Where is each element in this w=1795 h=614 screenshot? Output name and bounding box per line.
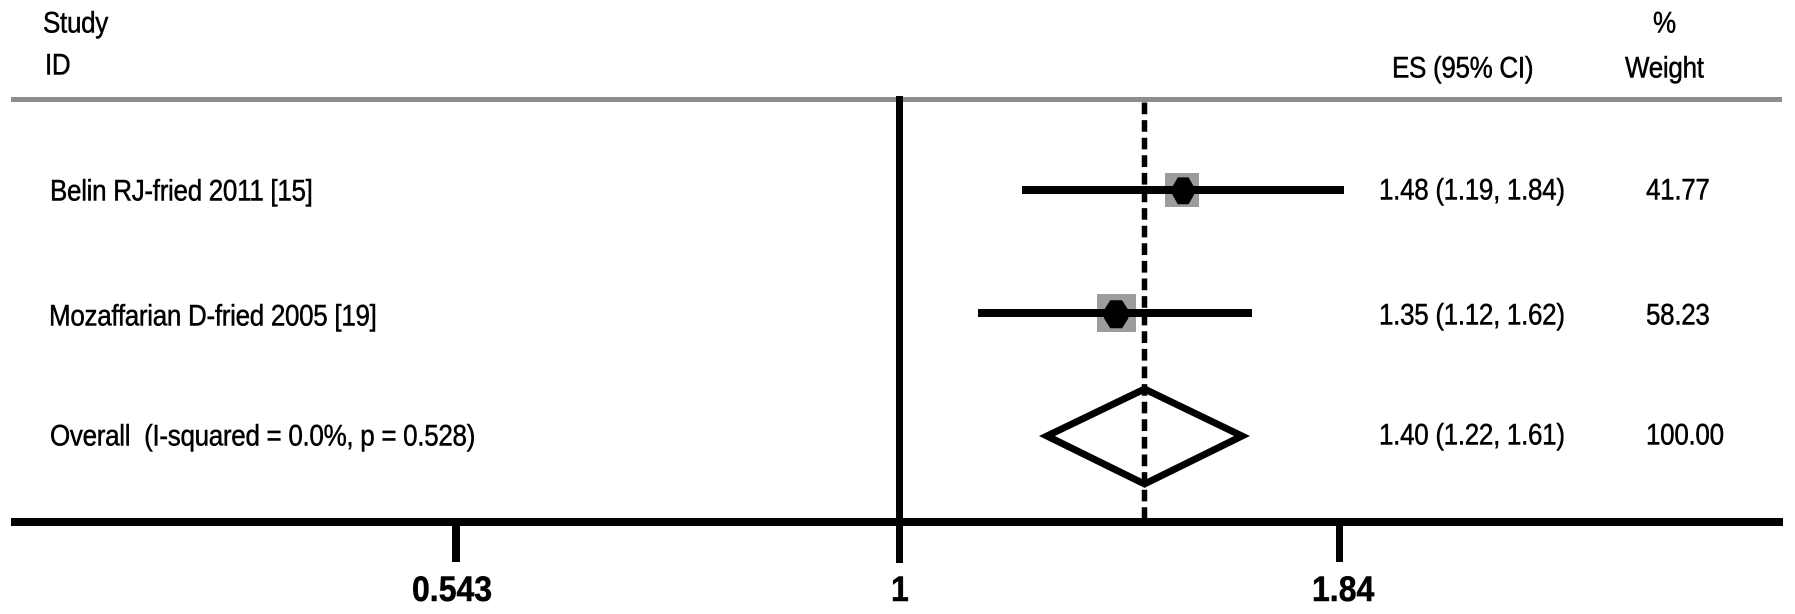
header: Study xyxy=(43,7,108,37)
header: Weight xyxy=(1625,52,1704,82)
gray separator line xyxy=(11,97,1782,102)
row 1 gray weight square xyxy=(1165,173,1199,207)
tick 1.84 xyxy=(1336,522,1343,562)
row 1 CI line xyxy=(1022,186,1344,194)
row 1 weight text xyxy=(1646,174,1710,204)
header: ID xyxy=(45,49,70,79)
row 2 black point marker xyxy=(1103,299,1130,330)
row 1 ES text xyxy=(1379,174,1565,204)
x axis line xyxy=(11,518,1783,526)
axis label 1 xyxy=(891,571,909,606)
row 2 weight text xyxy=(1646,299,1710,329)
row 2 ES text xyxy=(1379,299,1565,329)
overall ES text xyxy=(1379,419,1565,449)
overall label xyxy=(50,420,475,450)
row 2 gray weight square xyxy=(1097,294,1136,332)
row 2 CI line xyxy=(978,309,1252,317)
row 1: Belin label xyxy=(50,175,313,205)
row 1 black point marker xyxy=(1171,176,1197,206)
tick 0.543 xyxy=(452,522,460,562)
null reference vertical line at x=1 xyxy=(896,96,903,563)
axis label 1.84 xyxy=(1312,571,1374,606)
axis label 0.543 xyxy=(412,571,492,606)
header: % xyxy=(1653,7,1676,37)
row 2: Mozaffarian label xyxy=(49,300,377,330)
overall weight text xyxy=(1646,419,1724,449)
header: ES (95% CI) xyxy=(1392,52,1533,82)
